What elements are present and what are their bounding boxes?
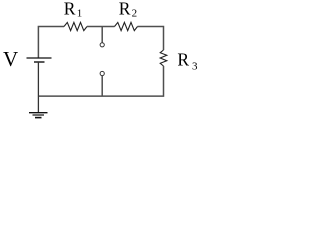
svg-text:R: R xyxy=(64,0,76,19)
wire: battery top lead + top-left corner xyxy=(38,27,64,59)
svg-text:1: 1 xyxy=(77,8,83,20)
resistor R1 xyxy=(64,22,87,30)
node: lower open terminal circle xyxy=(100,71,104,75)
wire: battery bottom lead to ground xyxy=(37,62,39,112)
battery V: short plate xyxy=(34,61,45,63)
node: upper open terminal circle xyxy=(100,43,104,47)
battery V: long plate xyxy=(27,57,52,59)
wire: middle branch upper segment xyxy=(101,27,103,43)
resistor R2 xyxy=(115,22,138,30)
wire: between R1 and R2 xyxy=(87,26,115,28)
svg-text:V: V xyxy=(3,47,18,71)
resistor R3 xyxy=(160,50,167,66)
svg-text:2: 2 xyxy=(132,8,138,20)
ground xyxy=(29,113,48,118)
wire: R3 bottom lead + bottom wire xyxy=(38,66,163,96)
svg-text:3: 3 xyxy=(192,61,198,73)
svg-text:R: R xyxy=(177,50,189,70)
svg-text:R: R xyxy=(119,0,131,19)
wire: R2 to top-right corner down to R3 xyxy=(138,27,164,51)
wire: middle branch lower segment xyxy=(101,76,103,97)
